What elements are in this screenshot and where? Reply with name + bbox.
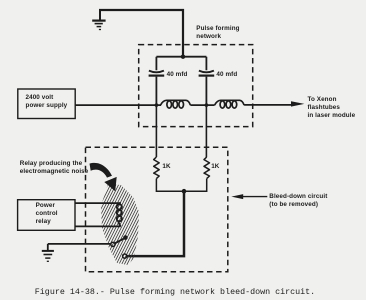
capacitor C2 40 mfd (199, 71, 215, 76)
wire from ground to top bus (99, 10, 183, 57)
relay box (18, 200, 75, 231)
bleed-down circuit dashed box (86, 147, 228, 271)
label bleed-down circuit (269, 193, 327, 210)
wire resistor bottoms connector (156, 179, 206, 192)
label 40 mfd (left) (167, 71, 188, 79)
node bleed junction (182, 189, 187, 194)
relay coil K1 (117, 203, 122, 226)
wire main line from power supply (75, 104, 161, 106)
pulse forming network dashed box (139, 45, 253, 127)
label 40 mfd (right) (216, 71, 237, 79)
label 1K (right) (211, 163, 219, 171)
wire branches down to bleed resistors (156, 105, 206, 157)
wire relay box to coil (upper) (75, 202, 121, 204)
resistor R2 1K (204, 157, 210, 179)
wire ground to switch pivot (48, 243, 111, 245)
wire to Xenon flashtubes with arrowhead (244, 104, 292, 106)
label relay producing the electromagnetic noise (20, 160, 89, 176)
label figure caption (35, 289, 315, 297)
label 1K (left) (162, 163, 170, 171)
ground (lower) (42, 244, 54, 261)
switch contact terminal (123, 254, 127, 258)
relay hatched noise region (48, 176, 191, 272)
wire top bus (156, 56, 206, 58)
arrow bleed-down callout (242, 196, 267, 198)
inductor L2 (215, 100, 245, 108)
node bus junction (181, 55, 185, 59)
node main wire right junction (205, 103, 209, 107)
label To Xenon flashtubes (308, 96, 356, 120)
label power control relay (36, 202, 58, 226)
wire between inductors (190, 104, 214, 106)
switch arm (115, 239, 124, 244)
wire capacitor leads (156, 57, 206, 105)
resistor R1 1K (154, 157, 160, 179)
node main wire left junction (155, 103, 159, 107)
label pulse forming network (196, 25, 239, 41)
inductor L1 (161, 100, 191, 108)
label 2400 volt power supply (26, 94, 68, 111)
wire thick drop from junction to switch contact (127, 191, 184, 256)
wire relay box to coil (lower) (75, 225, 121, 227)
switch pivot terminal (111, 242, 115, 246)
power supply box (18, 89, 75, 119)
arrow relay callout (thick curved) (90, 163, 113, 178)
switch arm tip blob (123, 235, 128, 240)
ground (top) (92, 10, 105, 30)
capacitor C1 40 mfd (149, 71, 165, 76)
